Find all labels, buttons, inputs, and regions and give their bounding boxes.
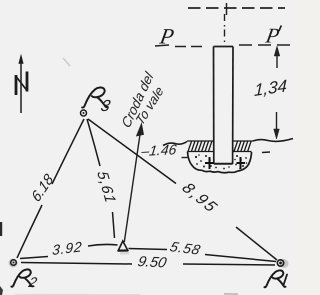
svg-text:9.50: 9.50 bbox=[136, 254, 168, 271]
station triangle bbox=[118, 241, 129, 254]
ground hatch right band bbox=[233, 141, 253, 152]
line R2-R1 (9.50) seg1 bbox=[21, 263, 132, 265]
dash under P bbox=[155, 45, 169, 46]
anchor cross left bbox=[205, 157, 214, 169]
ground surface left bbox=[163, 142, 187, 146]
line R3-R2 (6.18) bbox=[52, 119, 84, 184]
line R3-triangle (5,61) bbox=[87, 119, 100, 166]
point R3 bbox=[81, 110, 87, 116]
section vertical centerline bbox=[224, 14, 226, 44]
label R2 bbox=[11, 269, 38, 290]
section top tick bbox=[226, 3, 228, 15]
scan mark bottom-left corner bbox=[0, 286, 3, 295]
line R2-triangle (3.92) seg2 bbox=[88, 244, 118, 246]
ground hatch left band bbox=[187, 141, 214, 152]
label Croda del Tovale bbox=[119, 69, 166, 131]
label R3 bbox=[82, 87, 112, 114]
dashed line P' (right) bbox=[239, 44, 290, 46]
pit fill stipple bbox=[195, 154, 247, 169]
scan smudge top-left bbox=[63, 58, 70, 66]
svg-text:–1.46: –1.46 bbox=[140, 141, 178, 159]
dash after -1.46 bbox=[182, 157, 189, 159]
section top dashed line bbox=[188, 7, 285, 9]
point R1 bbox=[277, 259, 288, 268]
point R2 bbox=[9, 259, 18, 268]
line R3-R1 (8,95) upper segment bbox=[88, 119, 176, 184]
scan mark left edge bbox=[0, 222, 2, 236]
line triangle-R1 (5.58) seg2 bbox=[205, 255, 276, 262]
dimension arrow down bbox=[274, 112, 280, 139]
north arrow bbox=[16, 55, 27, 113]
line R2-R1 (9.50) seg2 bbox=[183, 264, 275, 265]
dimension arrow up (1,34) bbox=[274, 46, 280, 68]
scan streak bottom edge bbox=[15, 293, 140, 295]
anchor cross right bbox=[237, 157, 246, 169]
pit outline bbox=[188, 152, 252, 173]
dashed line P (left) bbox=[175, 46, 206, 48]
ground surface right bbox=[253, 139, 293, 142]
ground dash right of pit bbox=[262, 151, 270, 154]
arrow to section (from triangle) bbox=[124, 124, 143, 243]
line triangle-R1 (5.58) seg1 bbox=[129, 249, 168, 250]
post (pillar) bbox=[214, 47, 234, 165]
line R3-R1 (8,95) lower segment bbox=[236, 227, 277, 260]
scan mark bottom edge right bbox=[224, 293, 238, 295]
line R2-triangle (3.92) seg1 bbox=[20, 257, 48, 259]
label R1 bbox=[264, 270, 287, 287]
